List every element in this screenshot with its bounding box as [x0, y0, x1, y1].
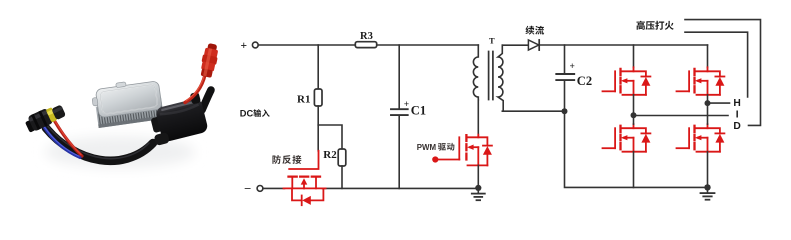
- photo: thin red wire: [51, 115, 82, 157]
- transistor Q2: PWM chopper MOSFET: [432, 135, 492, 166]
- capacitor C2 (+ output filter): [556, 45, 592, 111]
- svg-text:C2: C2: [577, 74, 592, 88]
- wire: HV output outer bracket to D: [685, 20, 761, 126]
- svg-text:I: I: [736, 109, 739, 120]
- wire: secondary top to freewheel diode: [502, 44, 528, 46]
- transformer T: primary winding: [473, 45, 478, 100]
- transistor Q4: H-bridge lower-left MOSFET: [603, 124, 651, 152]
- svg-text:R2: R2: [323, 149, 337, 161]
- photo: black igniter box: [146, 92, 209, 146]
- wire: branch to R2: [318, 125, 342, 149]
- wire: Q4/Q6 sources to bottom rail: [634, 152, 708, 188]
- node: right bridge midpoint dot: [705, 100, 711, 106]
- wire: R1 bottom lead down to gate node: [317, 106, 319, 151]
- transistor Q5: H-bridge upper-right MOSFET: [677, 67, 725, 95]
- resistor R1: [297, 89, 322, 106]
- photo: thick black power cable: [46, 127, 153, 161]
- label: T (transformer): [489, 35, 495, 45]
- photo: input connector with yellow collar: [23, 102, 66, 134]
- node: junction dot at PWM ground: [475, 185, 481, 191]
- label: H I D lamp terminals: [733, 98, 740, 132]
- node: DC input positive terminal (+): [241, 40, 259, 52]
- wire: right bridge output to H terminal: [708, 102, 730, 104]
- svg-text:T: T: [489, 35, 495, 45]
- wire: HV output inner bracket to H: [685, 32, 748, 97]
- wire: Q2 source to ground node: [477, 165, 479, 188]
- ground: left ground symbol: [472, 188, 485, 200]
- wire: C2 bottom down and right to bridge bottom rail: [565, 111, 708, 187]
- label: DC输入 (DC input): [240, 109, 270, 119]
- transformer T: secondary winding: [498, 45, 503, 111]
- transistor Q3: H-bridge upper-left MOSFET: [603, 67, 651, 95]
- svg-text:+: +: [241, 40, 248, 52]
- photo: red output wire: [185, 75, 205, 103]
- resistor R3 (inline on top rail): [355, 31, 376, 47]
- wire: bridge top rail branch down to Q3 and corner to Q5: [634, 45, 708, 67]
- photo: black HV cable stub to red connector: [202, 90, 211, 110]
- wire: top positive rail from + terminal to transformer primary: [258, 44, 478, 46]
- photo: red AMP connector: [199, 42, 221, 78]
- svg-text:C1: C1: [411, 104, 426, 118]
- svg-text:DC: DC: [240, 109, 254, 119]
- resistor R2: [323, 149, 346, 166]
- node: junction dot secondary/C2: [562, 108, 568, 114]
- svg-text:R1: R1: [297, 93, 310, 105]
- wire: R2 bottom lead to negative rail: [341, 166, 343, 188]
- wire: R1 branch from top rail: [317, 45, 319, 89]
- node: left bridge midpoint dot: [631, 112, 637, 118]
- transformer T: core: [489, 52, 493, 100]
- svg-text:PWM: PWM: [417, 143, 437, 152]
- wire: secondary bottom lead to C2 node: [502, 110, 564, 112]
- wire: left half-bridge vertical Q3 source to Q4 drain: [633, 95, 635, 124]
- label: 高压打火 (high-voltage ignition): [636, 21, 673, 30]
- photo: aluminium finned ballast body: [90, 77, 164, 128]
- photo: soft shadow under ballast kit: [45, 136, 195, 168]
- photo: thin blue wire: [44, 127, 80, 158]
- transistor Q6: H-bridge lower-right MOSFET: [677, 124, 725, 152]
- wire: negative rail middle segment to PWM ground node: [323, 187, 479, 189]
- svg-text:+: +: [570, 62, 575, 72]
- label: PWM驱动 (PWM drive): [417, 143, 455, 152]
- svg-text:D: D: [733, 121, 740, 132]
- label: 续流 (freewheel): [525, 26, 544, 35]
- transistor Q1: anti-reverse MOSFET on negative rail: [284, 151, 326, 205]
- wire: left bridge output to D terminal: [634, 115, 729, 117]
- diode D1: freewheel (续流) diode: [528, 40, 539, 50]
- wire: diode cathode along top rail to right bridge corner: [539, 44, 707, 46]
- node: DC input negative terminal (-): [244, 182, 263, 194]
- svg-text:+: +: [404, 100, 409, 110]
- ground: bridge ground symbol: [701, 187, 715, 199]
- svg-text:–: –: [244, 182, 251, 194]
- wire: transformer primary bottom to Q2 drain: [477, 100, 479, 135]
- label: 防反接 (anti-reverse): [272, 155, 301, 164]
- svg-text:H: H: [733, 98, 740, 109]
- wire: negative rail left segment: [263, 187, 285, 189]
- capacitor C1 (+ electrolytic): [391, 45, 426, 188]
- node: bridge ground junction dot: [704, 184, 710, 190]
- svg-text:R3: R3: [360, 31, 373, 42]
- wire: right half-bridge vertical Q5 source to Q6 drain: [707, 95, 709, 124]
